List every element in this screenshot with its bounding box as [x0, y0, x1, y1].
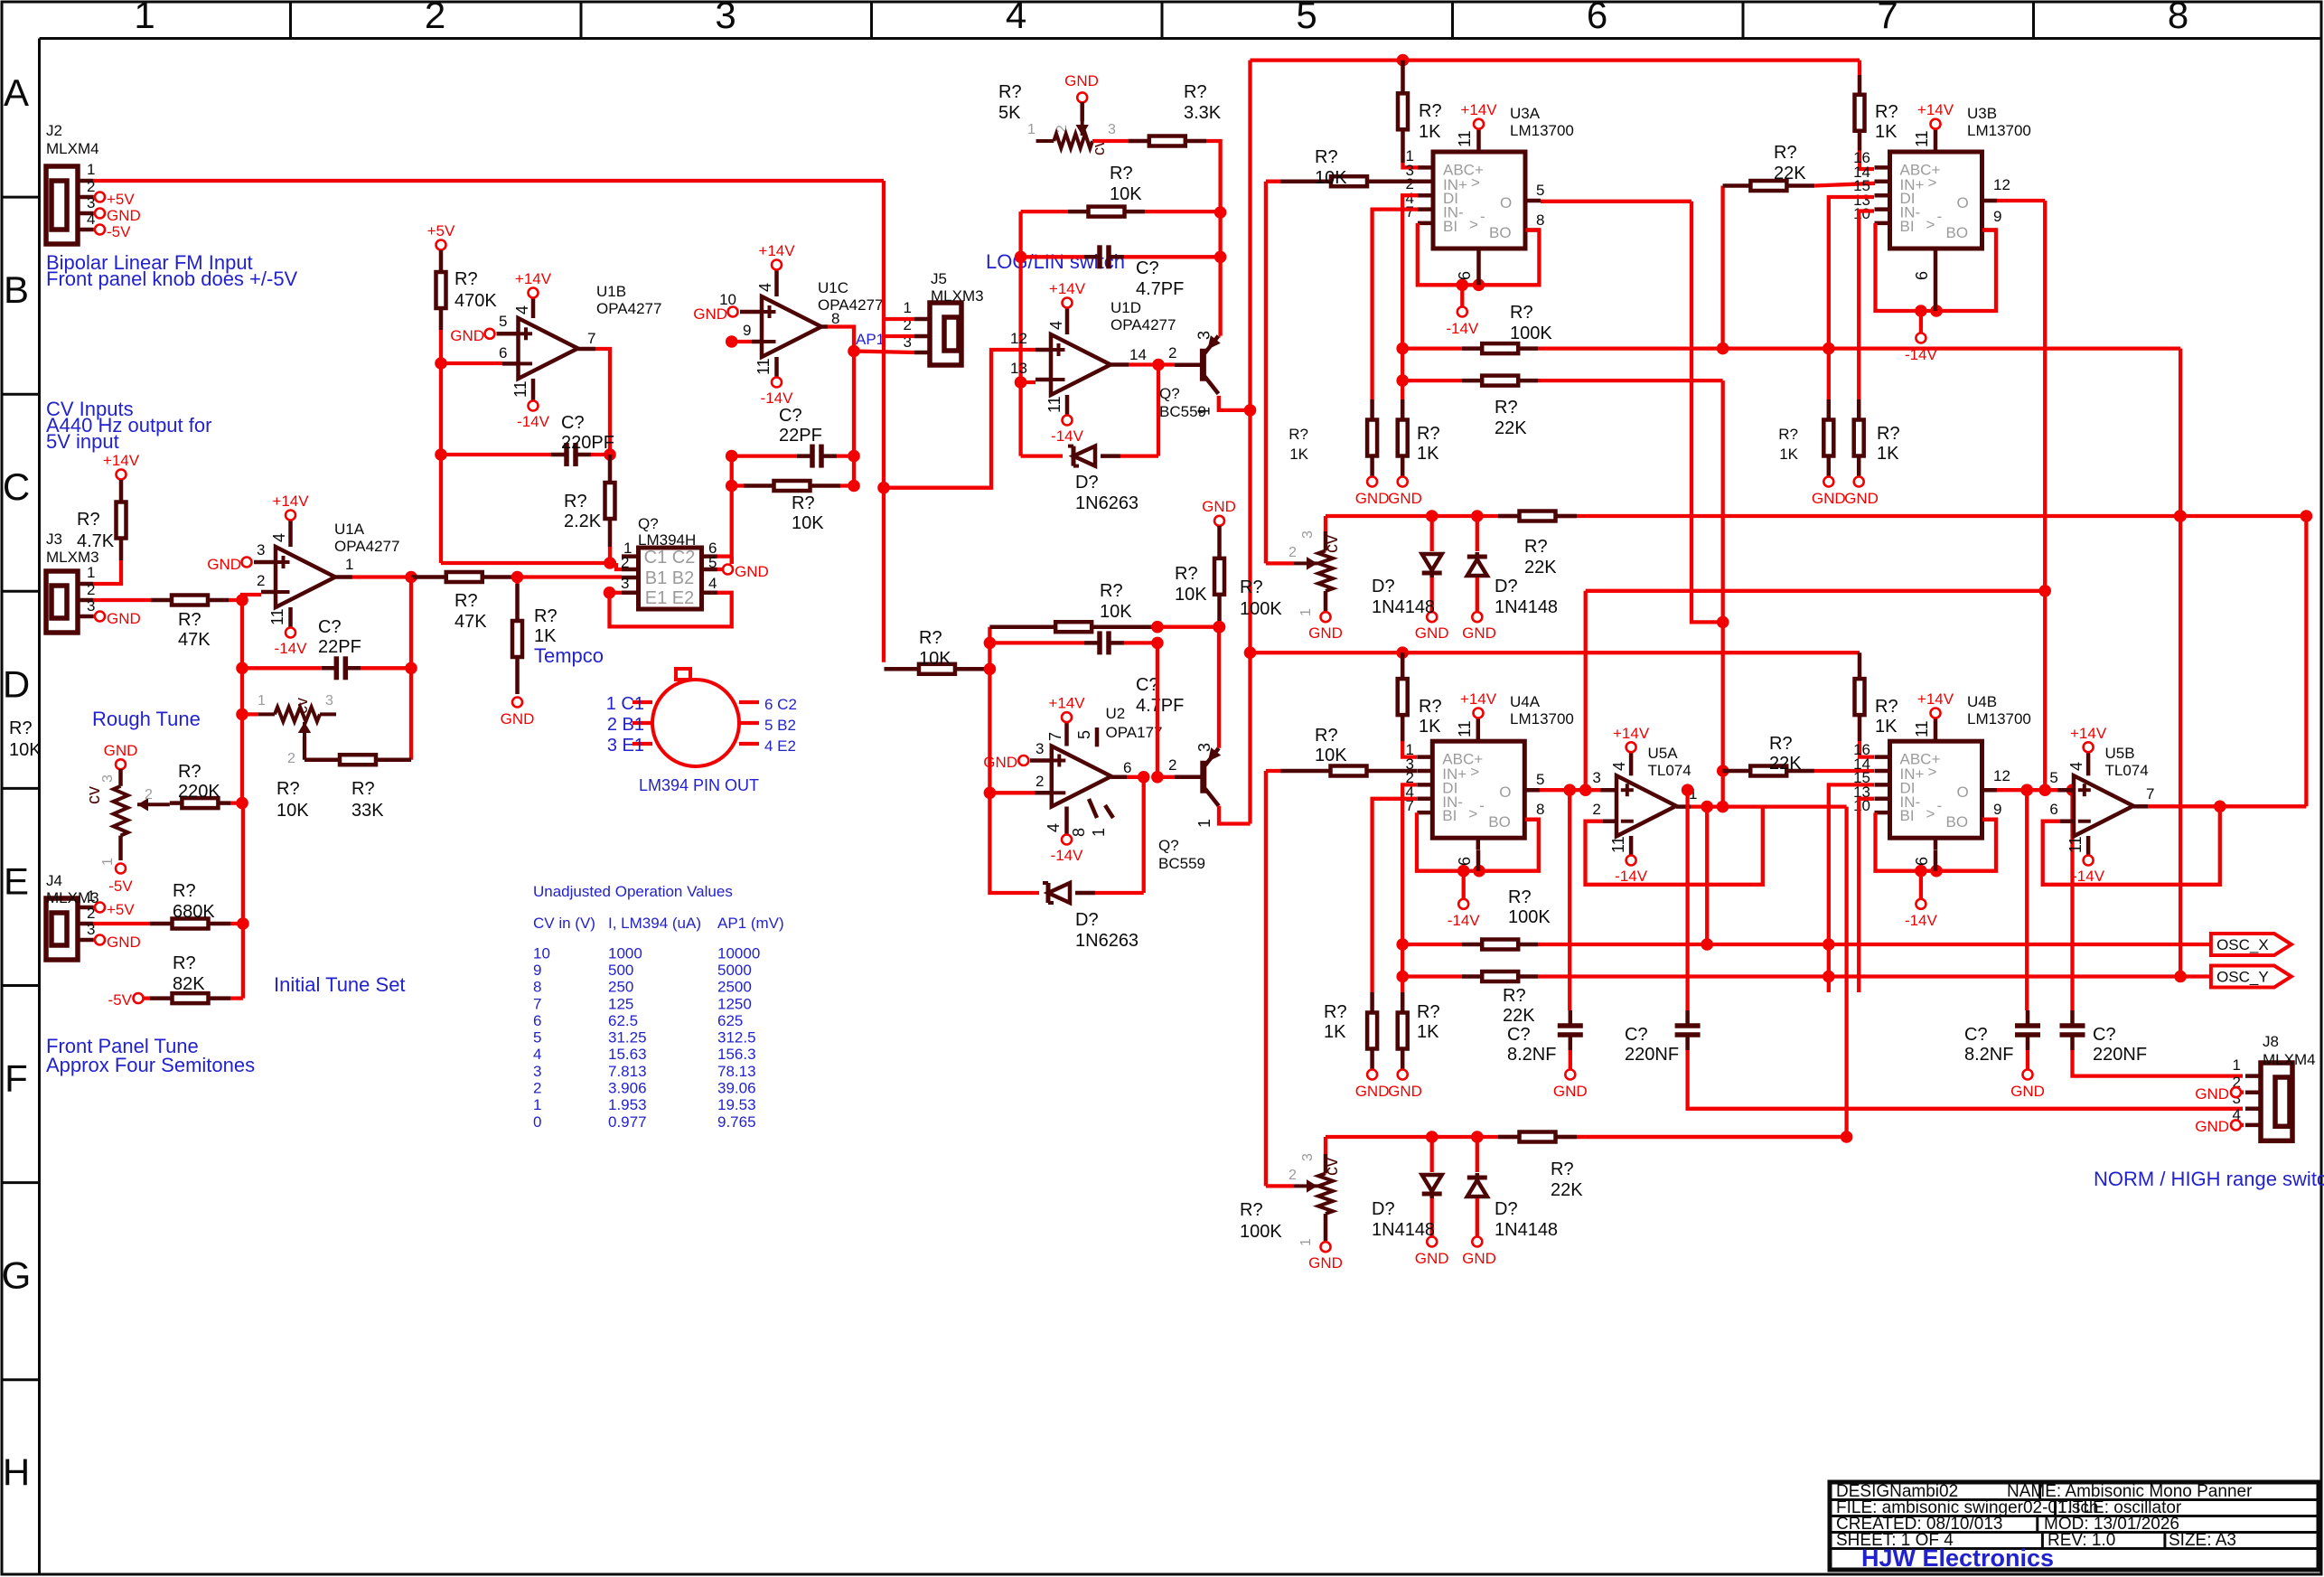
svg-text:5: 5	[533, 1029, 541, 1047]
svg-text:2.2K: 2.2K	[564, 512, 602, 531]
diode D? 1N6263	[1021, 454, 1063, 457]
svg-text:R?: R?	[173, 881, 196, 901]
svg-text:BO: BO	[1488, 813, 1511, 831]
svg-text:Q?: Q?	[1158, 837, 1179, 854]
svg-text:R?: R?	[1289, 426, 1308, 443]
svg-text:-14V: -14V	[1448, 912, 1481, 929]
svg-text:2: 2	[287, 751, 295, 766]
svg-text:1K: 1K	[1875, 122, 1898, 142]
svg-text:R?: R?	[178, 762, 201, 782]
svg-text:8: 8	[1536, 211, 1544, 229]
svg-text:>: >	[1468, 805, 1477, 822]
wire 100K up right	[1720, 186, 1724, 349]
svg-text:2 B1: 2 B1	[607, 715, 644, 735]
svg-text:R?: R?	[564, 492, 587, 512]
svg-text:GND: GND	[1415, 1250, 1449, 1267]
svg-text:D?: D?	[1372, 1199, 1395, 1219]
op-amp U5B TL074	[2074, 775, 2133, 836]
+5V on J2 pin2	[93, 195, 95, 199]
svg-text:C?: C?	[1625, 1025, 1648, 1045]
wire X fb down	[2179, 349, 2182, 977]
svg-text:5 B2: 5 B2	[764, 717, 796, 734]
svg-text:GND: GND	[501, 710, 535, 727]
svg-text:C?: C?	[1136, 258, 1159, 278]
svg-text:R?: R?	[276, 779, 300, 799]
svg-text:D?: D?	[1495, 1199, 1518, 1219]
GND bubble U1A pin3	[242, 558, 252, 568]
svg-text:GND: GND	[107, 207, 141, 224]
svg-text:R?: R?	[1419, 101, 1442, 121]
svg-text:LM13700: LM13700	[1510, 122, 1574, 139]
capacitor C? 220NF	[1685, 790, 1689, 1010]
svg-text:-14V: -14V	[1905, 346, 1938, 363]
svg-text:-14V: -14V	[1446, 320, 1479, 337]
wire U1A output	[335, 575, 352, 579]
wire U1D pin12 route	[884, 350, 1035, 488]
svg-text:3.906: 3.906	[608, 1080, 647, 1097]
svg-text:8.2NF: 8.2NF	[1964, 1045, 2013, 1065]
wire to U3B pin16	[1860, 151, 1874, 170]
svg-text:11: 11	[1456, 720, 1474, 737]
svg-text:8: 8	[1070, 828, 1088, 837]
svg-text:R?: R?	[1315, 726, 1338, 746]
svg-text:GND: GND	[1355, 1083, 1390, 1100]
svg-text:GND: GND	[450, 327, 484, 344]
resistor R? 1K gnd f	[1401, 992, 1405, 1013]
resistor R? 1K abc U3B	[1858, 61, 1861, 75]
svg-text:C?: C?	[318, 617, 342, 637]
svg-text:BI: BI	[1900, 218, 1915, 235]
svg-text:0: 0	[533, 1113, 541, 1131]
svg-text:4: 4	[533, 1046, 541, 1063]
svg-text:10: 10	[533, 944, 550, 962]
connector J4	[46, 898, 78, 960]
svg-text:5V input: 5V input	[46, 430, 119, 453]
svg-text:GND: GND	[1462, 1250, 1496, 1267]
svg-text:7: 7	[2146, 785, 2154, 803]
diode D? 1N4148 d	[1476, 1137, 1479, 1172]
connector J8	[2261, 1063, 2292, 1141]
svg-text:312.5: 312.5	[717, 1029, 756, 1047]
wire emitter rail	[1248, 61, 1251, 824]
wire U4B DI col	[1829, 784, 1874, 992]
wire output row to LM394 pin2	[518, 575, 623, 578]
svg-text:I, LM394 (uA): I, LM394 (uA)	[608, 915, 701, 932]
svg-text:11: 11	[1609, 836, 1627, 853]
GND bubble U1B pin5	[485, 329, 495, 339]
svg-text:-14V: -14V	[2072, 868, 2105, 885]
svg-text:MLXM3: MLXM3	[931, 287, 984, 305]
rough tune pot R? 10K	[240, 668, 244, 714]
svg-text:MLXM4: MLXM4	[2263, 1051, 2316, 1068]
svg-text:1K: 1K	[1779, 446, 1798, 463]
svg-text:4.7PF: 4.7PF	[1136, 696, 1184, 716]
wire U4A DI col	[1402, 784, 1417, 992]
svg-text:1: 1	[2233, 1056, 2241, 1074]
svg-text:Q?: Q?	[1159, 385, 1180, 402]
resistor R? 1K gnd a	[1370, 399, 1374, 420]
svg-text:+5V: +5V	[107, 901, 135, 918]
svg-text:OPA4277: OPA4277	[596, 300, 661, 317]
svg-text:R?: R?	[1495, 398, 1518, 418]
svg-text:R?: R?	[77, 510, 100, 530]
svg-text:22PF: 22PF	[779, 426, 822, 446]
svg-text:GND: GND	[1202, 498, 1236, 515]
wire J5 pin2	[884, 319, 914, 336]
svg-text:3: 3	[325, 693, 333, 709]
svg-text:1: 1	[258, 693, 266, 709]
svg-text:12: 12	[1993, 767, 2010, 784]
svg-text:C?: C?	[2093, 1025, 2116, 1045]
svg-text:+5V: +5V	[107, 191, 135, 208]
svg-text:TL074: TL074	[2105, 762, 2149, 779]
svg-text:-5V: -5V	[107, 223, 131, 240]
svg-text:500: 500	[608, 962, 633, 979]
resistor R? 22K clamp b	[1498, 1135, 1520, 1140]
diode D? 1N6263 U2	[989, 793, 1039, 893]
svg-text:GND: GND	[2195, 1085, 2229, 1103]
svg-text:GND: GND	[104, 742, 138, 759]
svg-text:470K: 470K	[454, 291, 497, 311]
wire U4B O out	[1997, 788, 2057, 792]
svg-text:47K: 47K	[454, 612, 487, 632]
svg-text:-14V: -14V	[1051, 427, 1084, 445]
wire R470K to U1B pin6	[439, 330, 443, 363]
svg-text:U5A: U5A	[1648, 745, 1679, 762]
svg-text:2: 2	[425, 0, 445, 36]
svg-text:12: 12	[1993, 176, 2010, 193]
svg-text:R?: R?	[9, 718, 33, 738]
svg-text:22K: 22K	[1774, 164, 1806, 183]
wire BC559b collector up	[1217, 627, 1221, 748]
svg-text:+14V: +14V	[1049, 280, 1086, 297]
wire to U3A pin1	[1403, 163, 1419, 167]
resistor R? 470K	[439, 250, 444, 272]
svg-text:CV in (V): CV in (V)	[533, 915, 595, 932]
svg-text:Initial Tune Set: Initial Tune Set	[274, 973, 406, 996]
+5V power symbol	[436, 240, 446, 250]
svg-text:10: 10	[1853, 205, 1870, 222]
svg-text:1: 1	[87, 887, 95, 905]
svg-text:2: 2	[1035, 773, 1044, 790]
svg-text:U1D: U1D	[1110, 299, 1141, 316]
svg-text:AP1: AP1	[856, 331, 885, 348]
wire to U4B pin16	[1860, 741, 1874, 757]
wire U2 output	[1111, 775, 1127, 780]
capacitor C? 8.2NF b	[2025, 790, 2029, 1010]
svg-text:>: >	[1469, 216, 1478, 233]
svg-text:R?: R?	[1110, 164, 1133, 183]
svg-text:3: 3	[621, 575, 629, 592]
svg-text:22K: 22K	[1524, 558, 1557, 577]
capacitor C? 22PF fb2	[732, 454, 797, 457]
svg-text:H: H	[3, 1451, 30, 1494]
svg-text:R?: R?	[919, 628, 942, 648]
svg-text:1: 1	[100, 858, 116, 866]
resistor R? 47K input	[93, 598, 151, 602]
wire 220K junction	[240, 714, 244, 803]
wire to U1A inverting input	[229, 598, 242, 602]
svg-text:1.953: 1.953	[608, 1096, 647, 1113]
svg-text:1N6263: 1N6263	[1075, 931, 1139, 951]
resistor R? 4.7K	[119, 480, 124, 502]
svg-text:R?: R?	[351, 779, 375, 799]
svg-text:GND: GND	[1388, 1083, 1422, 1100]
svg-text:10K: 10K	[1315, 746, 1347, 765]
svg-text:1250: 1250	[717, 995, 752, 1012]
svg-text:+14V: +14V	[1460, 690, 1497, 708]
svg-text:GND: GND	[1355, 490, 1390, 507]
capacitor C? 8.2NF	[1568, 790, 1571, 1010]
svg-text:22K: 22K	[1495, 418, 1527, 438]
svg-text:1K: 1K	[1875, 717, 1898, 737]
resistor R? 3.3K	[1092, 139, 1129, 143]
+14V pin11 U3A	[1474, 119, 1484, 129]
wire J2 bus to J5 pin1	[882, 181, 886, 319]
svg-text:+14V: +14V	[272, 493, 309, 510]
svg-text:1K: 1K	[534, 626, 557, 646]
GND bubble U1C pin10	[728, 307, 738, 317]
svg-text:R?: R?	[1100, 581, 1123, 601]
op-amp U1D OPA4277	[1051, 334, 1110, 395]
svg-text:BO: BO	[1946, 813, 1969, 831]
svg-text:13: 13	[1010, 360, 1027, 377]
wire U3B BI loop	[1876, 223, 1997, 311]
resistor R? 82K	[134, 993, 144, 1003]
svg-text:BI: BI	[1900, 807, 1915, 824]
svg-text:6: 6	[533, 1012, 541, 1029]
svg-text:A: A	[4, 71, 29, 114]
svg-text:3: 3	[1108, 122, 1116, 137]
wire U1B output	[578, 347, 596, 352]
svg-text:2: 2	[533, 1080, 541, 1097]
svg-text:R?: R?	[1774, 143, 1797, 163]
svg-text:1000: 1000	[608, 944, 642, 962]
svg-text:1K: 1K	[1324, 1022, 1346, 1042]
+14V pin4 U5B	[2086, 752, 2091, 775]
-14V pin6 U4B	[1934, 850, 1938, 871]
pot R? 100K upper	[1264, 182, 1268, 564]
svg-text:GND: GND	[1844, 490, 1879, 507]
resistor R? 10K U3A in+	[1266, 180, 1280, 183]
svg-text:250: 250	[608, 979, 633, 996]
capacitor C? 22PF	[240, 600, 244, 668]
op-amp U2 OPA177	[1052, 746, 1111, 807]
svg-text:+14V: +14V	[1917, 690, 1954, 708]
svg-text:O: O	[1957, 194, 1969, 211]
svg-text:R?: R?	[1184, 82, 1207, 102]
wire U3A IN- col	[1373, 210, 1418, 399]
svg-text:C?: C?	[1964, 1025, 1988, 1045]
svg-text:LM13700: LM13700	[1967, 710, 2031, 727]
svg-text:U1A: U1A	[334, 521, 365, 538]
op-amp U1B OPA4277	[519, 318, 578, 379]
resistor R? 1K gnd d	[1857, 399, 1861, 420]
-5V on J2 pin4	[93, 228, 95, 231]
svg-text:R?: R?	[1769, 734, 1793, 754]
svg-text:8: 8	[831, 310, 839, 327]
svg-text:33K: 33K	[351, 801, 384, 821]
resistor R? 100K X row	[1402, 943, 1462, 946]
svg-text:GND: GND	[735, 563, 769, 580]
connector J2	[46, 166, 78, 244]
svg-text:4: 4	[270, 533, 288, 542]
resistor R? 680K	[93, 922, 150, 925]
wire U3A BI loop	[1418, 223, 1540, 285]
svg-text:-: -	[1937, 797, 1943, 814]
wire U2 pin2 from node	[989, 791, 1035, 794]
svg-text:47K: 47K	[178, 630, 211, 650]
svg-text:U1B: U1B	[596, 283, 626, 300]
svg-text:HJW Electronics: HJW Electronics	[1861, 1544, 2054, 1572]
long vertical col1	[241, 803, 245, 999]
wire loglin col	[1018, 211, 1022, 456]
svg-text:BI: BI	[1442, 807, 1457, 824]
resistor R? 1K abc U4B	[1858, 652, 1862, 679]
-14V pin11 U1A	[288, 607, 293, 627]
svg-text:R?: R?	[534, 606, 558, 626]
resistor R? 10K to U2	[885, 667, 919, 671]
wire U5A out down to row	[1844, 807, 1848, 1137]
svg-text:R?: R?	[998, 82, 1022, 102]
wire U5A out to X row	[1705, 807, 1709, 944]
svg-text:R?: R?	[1524, 537, 1548, 557]
+14V pin11 U4A	[1474, 709, 1484, 718]
svg-text:U3B: U3B	[1967, 105, 1997, 122]
resistor R? 10K col5	[1217, 526, 1222, 559]
svg-text:2: 2	[257, 572, 265, 589]
svg-text:D?: D?	[1075, 910, 1099, 930]
svg-text:10K: 10K	[792, 513, 824, 533]
svg-text:3: 3	[715, 0, 736, 36]
svg-text:R?: R?	[1417, 424, 1440, 444]
svg-text:GND: GND	[1064, 72, 1099, 89]
svg-text:1: 1	[87, 161, 95, 178]
svg-text:R?: R?	[1324, 1002, 1347, 1022]
svg-text:+14V: +14V	[103, 452, 140, 469]
svg-text:+14V: +14V	[1613, 725, 1650, 742]
svg-text:O: O	[1500, 194, 1512, 211]
svg-text:GND: GND	[1308, 1254, 1343, 1272]
svg-text:-14V: -14V	[1905, 912, 1938, 929]
svg-text:5: 5	[1536, 771, 1544, 788]
svg-text:100K: 100K	[1240, 599, 1282, 619]
wire fb net right	[1157, 625, 1219, 629]
svg-text:C?: C?	[1136, 675, 1159, 695]
svg-text:R?: R?	[792, 493, 815, 513]
svg-text:5K: 5K	[998, 103, 1021, 123]
svg-text:7: 7	[1406, 203, 1414, 221]
wire U4A O out	[1540, 788, 1600, 792]
wire cap col to out	[1156, 643, 1159, 776]
top bus	[1251, 58, 1860, 61]
svg-text:1: 1	[134, 0, 155, 36]
svg-text:R?: R?	[178, 610, 201, 630]
wire link U4A O up	[1586, 589, 2046, 593]
svg-text:Q?: Q?	[638, 515, 659, 532]
svg-text:1: 1	[345, 556, 353, 573]
svg-text:1N6263: 1N6263	[1075, 493, 1139, 513]
wire BC559 emitter	[1219, 396, 1251, 410]
wire 22K col down	[1721, 380, 1725, 806]
-14V pin11 U1D	[1065, 395, 1070, 415]
svg-text:5: 5	[1296, 0, 1317, 36]
svg-text:2: 2	[1168, 756, 1176, 774]
svg-text:0.977: 0.977	[608, 1113, 647, 1131]
svg-text:C?: C?	[561, 413, 585, 433]
svg-text:O: O	[1957, 784, 1969, 801]
svg-text:GND: GND	[107, 610, 141, 627]
svg-text:D?: D?	[1495, 577, 1518, 596]
svg-text:GND: GND	[1812, 490, 1846, 507]
svg-text:LM13700: LM13700	[1510, 710, 1574, 727]
svg-text:5: 5	[1075, 730, 1093, 739]
connector J3	[46, 571, 78, 633]
svg-text:10K: 10K	[9, 740, 42, 760]
svg-text:R?: R?	[1778, 426, 1798, 443]
svg-text:R?: R?	[454, 591, 478, 611]
svg-text:82K: 82K	[173, 974, 205, 994]
svg-text:4 E2: 4 E2	[764, 737, 796, 755]
svg-text:O: O	[1499, 784, 1511, 801]
svg-text:C?: C?	[1507, 1025, 1531, 1045]
wire J5 col down	[882, 336, 886, 488]
svg-text:9.765: 9.765	[717, 1113, 756, 1131]
svg-text:22K: 22K	[1769, 754, 1802, 774]
svg-text:R?: R?	[1175, 564, 1198, 584]
svg-text:1N4148: 1N4148	[1495, 1220, 1558, 1240]
resistor R? 22K clamp	[1498, 514, 1520, 519]
svg-text:10K: 10K	[919, 649, 951, 669]
pot R? 100K lower	[1266, 1184, 1294, 1187]
GND bubble U2 pin3	[1018, 756, 1028, 765]
svg-text:E1 E2: E1 E2	[645, 588, 694, 608]
connector J5	[930, 303, 961, 365]
resistor R? 22K Y row	[1402, 974, 1462, 978]
wire BC559b emitter	[1219, 806, 1251, 824]
svg-text:E: E	[4, 859, 29, 902]
title block	[1830, 1482, 2319, 1570]
svg-text:220K: 220K	[178, 782, 220, 802]
svg-text:Tempco: Tempco	[534, 644, 604, 667]
svg-text:31.25: 31.25	[608, 1029, 647, 1047]
svg-text:-: -	[1937, 208, 1943, 225]
svg-text:U5B: U5B	[2105, 745, 2135, 762]
svg-text:156.3: 156.3	[717, 1046, 756, 1063]
svg-text:8: 8	[1536, 801, 1544, 818]
svg-text:14: 14	[1129, 346, 1147, 363]
resistor R? 100K row	[1402, 346, 1462, 350]
svg-text:>: >	[1926, 216, 1935, 233]
resistor R? 10K U4A in+	[1266, 769, 1280, 773]
wire U5B fb loop	[2043, 806, 2220, 885]
resistor R? 22K to U3B	[1723, 183, 1751, 188]
svg-text:10K: 10K	[1315, 168, 1347, 188]
svg-text:10K: 10K	[1175, 585, 1207, 605]
svg-text:11: 11	[1913, 130, 1931, 147]
svg-text:Front panel knob does +/-5V: Front panel knob does +/-5V	[46, 268, 298, 290]
svg-text:-14V: -14V	[1051, 847, 1084, 864]
wire U2 inv node	[988, 669, 991, 793]
resistor R? 10K loglin	[1021, 210, 1068, 213]
resistor R? 22K row2	[1402, 379, 1462, 382]
svg-text:U1C: U1C	[818, 279, 848, 296]
resistor R? 33K	[305, 757, 340, 762]
svg-text:5: 5	[708, 554, 717, 571]
svg-text:U4A: U4A	[1510, 693, 1541, 710]
svg-text:22K: 22K	[1503, 1006, 1535, 1026]
svg-text:3: 3	[100, 774, 116, 783]
